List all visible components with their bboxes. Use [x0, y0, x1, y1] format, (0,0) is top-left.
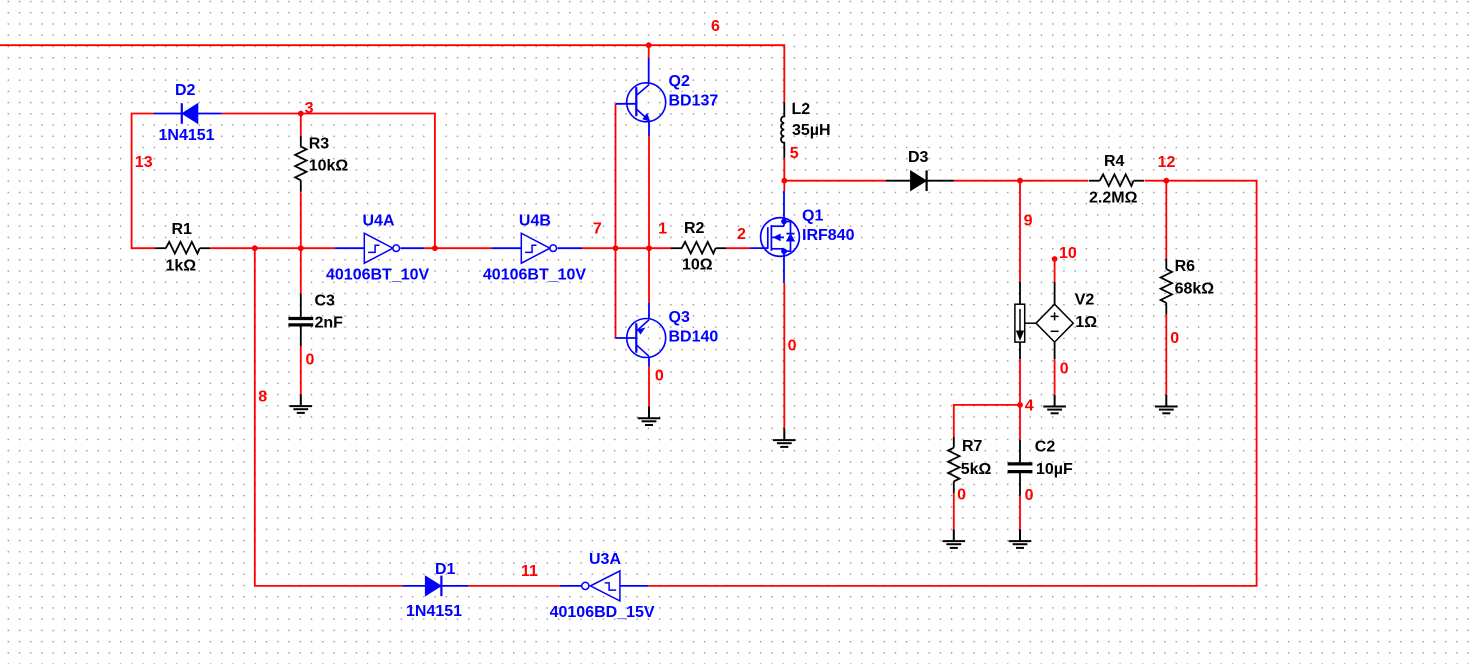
wire net 6 top supply: [0, 45, 784, 102]
svg-text:V2: V2: [1075, 291, 1095, 308]
U4B output lead: [558, 247, 583, 249]
wire R3 to main row: [300, 192, 302, 248]
Q2 emitter lead: [648, 122, 650, 136]
wire C3 to ground net 0: [300, 346, 302, 395]
svg-text:1Ω: 1Ω: [1075, 314, 1097, 331]
inductor L2: [781, 102, 784, 157]
junction net 8 tap: [252, 245, 258, 251]
svg-text:U3A: U3A: [589, 551, 621, 568]
junction net 5: [781, 178, 787, 184]
svg-text:0: 0: [788, 338, 797, 355]
Q3 collector lead: [648, 357, 650, 367]
op-amp U4A schmitt inverter: [364, 233, 399, 263]
svg-text:U4A: U4A: [363, 212, 395, 229]
svg-text:35µH: 35µH: [792, 122, 831, 139]
junction R3/C3: [298, 245, 304, 251]
svg-text:2nF: 2nF: [315, 315, 344, 332]
svg-text:1N4151: 1N4151: [159, 127, 215, 144]
wire R6 to ground net 0: [1165, 314, 1167, 395]
svg-text:10kΩ: 10kΩ: [309, 157, 349, 174]
D2 cathode lead: [154, 113, 181, 115]
ground Q3: [638, 407, 661, 425]
wire U4A out to U4B in: [424, 247, 492, 249]
V2 minus lead: [1054, 342, 1056, 359]
svg-text:2: 2: [737, 226, 746, 243]
D3 cathode lead: [927, 180, 954, 182]
D1 anode lead: [403, 585, 425, 587]
wire C2 to ground net 0: [1019, 496, 1021, 530]
svg-text:0: 0: [306, 352, 315, 369]
ground Q1: [773, 429, 796, 447]
U3A output lead: [560, 585, 583, 587]
svg-text:0: 0: [1060, 361, 1069, 378]
wire net 13 left loop: [132, 114, 155, 249]
svg-text:C3: C3: [315, 293, 336, 310]
svg-text:8: 8: [258, 389, 267, 406]
source V2 current sense: [1015, 304, 1025, 342]
V2 sense lead bottom: [1019, 342, 1021, 359]
op-amp U4B schmitt inverter: [521, 233, 556, 263]
U4B input lead: [492, 247, 522, 249]
ground C2: [1009, 530, 1032, 548]
ground V2: [1043, 395, 1066, 413]
svg-text:R3: R3: [309, 136, 330, 153]
svg-text:0: 0: [957, 486, 966, 503]
wire R1 to U4A input: [210, 247, 334, 249]
svg-text:40106BT_10V: 40106BT_10V: [483, 267, 587, 284]
svg-text:11: 11: [521, 563, 538, 580]
ground R7: [943, 530, 966, 548]
junction net 6: [646, 42, 652, 48]
U4A output lead: [400, 247, 424, 249]
D1 cathode lead: [441, 585, 468, 587]
svg-text:2.2MΩ: 2.2MΩ: [1089, 190, 1138, 207]
svg-text:IRF840: IRF840: [802, 227, 855, 244]
svg-text:7: 7: [593, 220, 602, 237]
wire R7 to ground net 0: [953, 493, 955, 530]
wire Q2 base to Q3 base vertical: [615, 104, 617, 338]
svg-text:Q2: Q2: [669, 73, 690, 90]
svg-text:U4B: U4B: [519, 212, 551, 229]
wire net 12 to R6: [1165, 181, 1167, 259]
resistor R6: [1161, 258, 1172, 314]
U3A input lead: [620, 585, 648, 587]
junction net 1: [646, 245, 652, 251]
svg-text:R6: R6: [1175, 258, 1196, 275]
svg-text:9: 9: [1024, 212, 1033, 229]
resistor R3: [295, 136, 306, 192]
wire net 12 right loop: [648, 181, 1257, 586]
wire net 10 terminal: [1054, 259, 1056, 282]
svg-text:Q1: Q1: [802, 208, 823, 225]
diode D1: [425, 576, 441, 597]
junction net 4: [1017, 402, 1023, 408]
svg-text:1N4151: 1N4151: [406, 603, 462, 620]
wire Q2 collector red: [648, 45, 650, 58]
svg-text:68kΩ: 68kΩ: [1175, 281, 1215, 298]
source V2 diamond: [1025, 304, 1074, 342]
Q1 drain lead: [783, 191, 785, 218]
svg-text:1kΩ: 1kΩ: [166, 258, 197, 275]
svg-text:L2: L2: [792, 101, 811, 118]
svg-text:5kΩ: 5kΩ: [961, 461, 992, 478]
junction U4A output: [432, 245, 438, 251]
svg-text:R7: R7: [962, 438, 983, 455]
Q3 emitter lead: [648, 303, 650, 319]
resistor R7: [948, 437, 959, 493]
junction net 7 base column: [613, 245, 619, 251]
svg-text:13: 13: [135, 154, 153, 171]
wire net 5 to D3: [784, 180, 886, 182]
diode D2: [182, 103, 198, 124]
svg-text:Q3: Q3: [669, 309, 690, 326]
wire net 3 to U4A output corner: [222, 114, 435, 249]
svg-text:0: 0: [1025, 487, 1034, 504]
wire R2 to Q1 gate: [726, 247, 750, 249]
D2 anode lead: [198, 113, 222, 115]
Q2 base lead: [616, 103, 637, 105]
svg-text:40106BD_15V: 40106BD_15V: [550, 604, 655, 621]
wire Q3 collector to ground: [648, 367, 650, 407]
svg-text:R1: R1: [172, 221, 193, 238]
wire main row to C3: [300, 248, 302, 293]
terminal net 10: [1052, 256, 1058, 262]
ground R6: [1155, 395, 1178, 413]
diode D3: [911, 170, 927, 191]
Q1 source lead: [783, 256, 785, 282]
junction net 12: [1163, 178, 1169, 184]
svg-text:10: 10: [1059, 245, 1077, 262]
wire L2 to net 5: [783, 158, 785, 181]
svg-text:10Ω: 10Ω: [682, 256, 713, 273]
wire sense to net 4: [1019, 359, 1021, 405]
svg-text:4: 4: [1025, 398, 1034, 415]
wire net 3 to R3: [300, 114, 302, 136]
svg-text:40106BT_10V: 40106BT_10V: [326, 267, 430, 284]
resistor R2: [671, 242, 726, 254]
wire net 11: [468, 585, 560, 587]
resistor R1: [155, 242, 210, 254]
svg-text:D2: D2: [175, 82, 196, 99]
svg-text:6: 6: [711, 18, 720, 35]
capacitor C3: [288, 294, 313, 346]
V2 plus lead: [1054, 282, 1056, 304]
op-amp U3A schmitt inverter mirrored: [582, 571, 620, 601]
svg-text:5: 5: [790, 145, 799, 162]
wire Q2 emitter to net 1: [648, 136, 650, 248]
svg-text:R2: R2: [684, 220, 705, 237]
svg-text:BD137: BD137: [669, 93, 719, 110]
svg-text:0: 0: [655, 368, 664, 385]
wire net 7 / net 1: [582, 247, 671, 249]
V2 sense lead top: [1019, 282, 1021, 304]
wire net 8 vertical to D1: [255, 248, 403, 586]
U4A input lead: [335, 247, 365, 249]
svg-text:3: 3: [305, 100, 314, 117]
svg-text:1: 1: [658, 220, 667, 237]
ground C3: [290, 395, 313, 413]
svg-text:D1: D1: [435, 561, 456, 578]
svg-text:12: 12: [1158, 154, 1176, 171]
transistor Q3: [627, 319, 666, 358]
junction net 3: [298, 111, 304, 117]
wire D3 to R4 / net 9: [954, 180, 1089, 182]
svg-text:BD140: BD140: [669, 329, 719, 346]
resistor R4: [1089, 174, 1144, 186]
capacitor C2: [1008, 440, 1033, 496]
junction net 9: [1017, 178, 1023, 184]
wire V2 to ground net 0: [1054, 359, 1056, 395]
svg-text:R4: R4: [1104, 153, 1125, 170]
wire net 4 to C2: [1019, 405, 1021, 440]
Q2 collector lead: [648, 58, 650, 85]
transistor Q1 MOSFET: [750, 218, 799, 257]
wire net 9 vertical: [1019, 181, 1021, 282]
wire net 1 to Q3 emitter: [648, 248, 650, 303]
wire net 4 row to R7: [954, 405, 1020, 437]
wire Q1 source to ground net 0: [783, 283, 785, 429]
svg-text:C2: C2: [1035, 438, 1056, 455]
svg-text:10µF: 10µF: [1036, 461, 1073, 478]
svg-text:D3: D3: [908, 149, 929, 166]
wire net 5 to Q1 drain: [783, 181, 785, 191]
svg-text:0: 0: [1170, 330, 1179, 347]
Q3 base lead: [616, 337, 637, 339]
D3 anode lead: [886, 180, 911, 182]
transistor Q2: [627, 83, 666, 122]
